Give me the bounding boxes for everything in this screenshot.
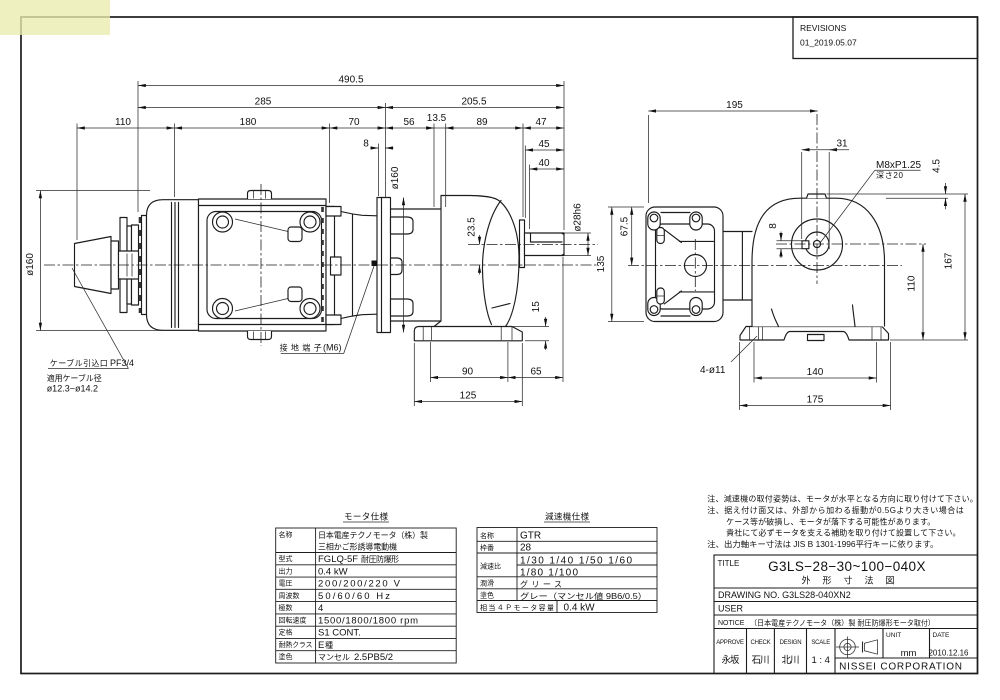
gearbox vertical axis xyxy=(694,239,696,291)
title block grid xyxy=(714,555,978,674)
right view vertical axis xyxy=(816,114,818,284)
svg-text:S1 CONT.: S1 CONT. xyxy=(318,628,361,639)
svg-text:DATE: DATE xyxy=(933,632,951,639)
svg-text:日本電産テクノモータ（株）製: 日本電産テクノモータ（株）製 xyxy=(318,530,428,540)
motor foot front xyxy=(740,327,889,341)
bell joint lines xyxy=(172,203,179,328)
dim 47 xyxy=(523,117,564,128)
flange bolt top xyxy=(391,217,414,234)
gbx left tab top xyxy=(657,228,665,244)
svg-text:潤滑: 潤滑 xyxy=(480,578,494,587)
brake ring 3 xyxy=(132,225,139,305)
svg-text:貴社にて必ずモータを支える補助を取り付けて設置して下さい。: 貴社にて必ずモータを支える補助を取り付けて設置して下さい。 xyxy=(726,528,960,538)
svg-text:塗色: 塗色 xyxy=(480,590,494,599)
M8 tap circle xyxy=(813,240,820,247)
dim 8 flange xyxy=(363,139,393,197)
projection symbol xyxy=(836,637,878,658)
neck adapter xyxy=(723,232,752,301)
gearbox gear circle xyxy=(685,255,707,277)
svg-text:グレー（マンセル値 9B6/0.5）: グレー（マンセル値 9B6/0.5） xyxy=(520,591,647,601)
dim 40 xyxy=(530,158,565,229)
frame bolt bottom-right xyxy=(300,299,320,319)
label 4-dia11 xyxy=(700,336,757,376)
dim 70 xyxy=(330,117,386,128)
label cable entry xyxy=(48,268,134,369)
motor frame xyxy=(199,199,327,331)
svg-text:耐熱クラス: 耐熱クラス xyxy=(279,640,313,649)
svg-text:490.5: 490.5 xyxy=(338,75,363,86)
notice xyxy=(718,618,935,628)
bottom cap xyxy=(248,331,272,340)
svg-text:NISSEI CORPORATION: NISSEI CORPORATION xyxy=(839,662,963,673)
gbx bolt TR xyxy=(690,212,702,230)
centerlines overlay xyxy=(44,114,926,346)
gbx bolt TL xyxy=(648,212,660,230)
gearbox top band xyxy=(661,213,690,317)
svg-text:8: 8 xyxy=(363,139,369,150)
svg-text:減速機仕様: 減速機仕様 xyxy=(545,512,589,522)
top cap xyxy=(248,191,272,200)
flange bolt mid xyxy=(391,258,403,275)
svg-text:15: 15 xyxy=(531,301,542,313)
svg-text:180: 180 xyxy=(240,117,257,128)
svg-text:M8xP1.25: M8xP1.25 xyxy=(876,160,921,171)
dome top tab xyxy=(807,194,827,198)
right view main axis xyxy=(628,264,902,266)
svg-text:1500/1800/1800 rpm: 1500/1800/1800 rpm xyxy=(318,615,418,626)
svg-text:56: 56 xyxy=(403,117,415,128)
gbx bolt BR xyxy=(690,298,702,316)
dim 167 xyxy=(890,194,968,340)
svg-text:(M6): (M6) xyxy=(323,343,342,353)
output boss xyxy=(520,220,525,268)
svg-text:電圧: 電圧 xyxy=(279,580,293,588)
svg-text:石川: 石川 xyxy=(752,655,770,666)
dim 4.5 xyxy=(827,159,969,210)
dim 15 xyxy=(508,301,549,350)
svg-text:周波数: 周波数 xyxy=(279,591,300,600)
gearbox foot xyxy=(414,327,522,341)
svg-text:注、出力軸キー寸法は JIS B 1301-1996平行キー: 注、出力軸キー寸法は JIS B 1301-1996平行キーに依ります。 xyxy=(707,539,938,549)
rear plate xyxy=(142,216,147,315)
dim 65 xyxy=(508,257,563,382)
svg-text:0.4 kW: 0.4 kW xyxy=(318,566,348,577)
dim 23.5 xyxy=(467,217,480,275)
gearbox square front xyxy=(646,207,723,322)
brake ring 2 xyxy=(127,226,132,304)
shaft bore circle xyxy=(805,232,829,256)
svg-text:175: 175 xyxy=(807,395,824,406)
svg-text:195: 195 xyxy=(726,100,743,111)
svg-text:45: 45 xyxy=(538,139,550,150)
adapter plate xyxy=(326,207,341,325)
svg-text:28: 28 xyxy=(520,543,532,554)
svg-text:70: 70 xyxy=(348,117,360,128)
dome gussets xyxy=(772,305,856,327)
svg-text:名称: 名称 xyxy=(480,531,494,540)
svg-text:ø160: ø160 xyxy=(390,166,401,189)
svg-text:67.5: 67.5 xyxy=(620,216,631,236)
frame gusset blocks xyxy=(288,227,302,302)
dim 56 xyxy=(385,117,434,207)
svg-text:01_2019.05.07: 01_2019.05.07 xyxy=(800,38,857,48)
dim 205.5 xyxy=(385,97,564,108)
svg-text:北川: 北川 xyxy=(782,655,800,666)
dim 67.5 xyxy=(620,207,632,265)
svg-text:UNIT: UNIT xyxy=(886,632,901,639)
scale cell xyxy=(811,640,830,666)
earth terminal lug xyxy=(372,261,378,267)
frame bolt top-right xyxy=(300,212,320,232)
svg-text:減速比: 減速比 xyxy=(480,562,501,571)
frame bolt bottom-left xyxy=(213,299,233,319)
svg-text:89: 89 xyxy=(476,117,488,128)
svg-text:種: 種 xyxy=(325,640,333,650)
frame window xyxy=(207,212,322,319)
dim dia28h6 xyxy=(565,203,592,256)
svg-text:135: 135 xyxy=(596,255,607,272)
brake ring 1 xyxy=(120,218,127,313)
dim 89 xyxy=(446,117,523,217)
svg-text:注、据え付け面又は、外部から加わる振動が0.5Gより大きい場: 注、据え付け面又は、外部から加わる振動が0.5Gより大きい場合は xyxy=(707,505,963,515)
keyway slot xyxy=(802,241,809,249)
svg-text:REVISIONS: REVISIONS xyxy=(800,23,847,33)
svg-text:47: 47 xyxy=(535,117,547,128)
dim 175 xyxy=(740,342,891,410)
svg-text:110: 110 xyxy=(115,117,131,128)
main axis left view xyxy=(44,264,598,266)
approve cell xyxy=(716,640,744,666)
svg-text:2.5PB5/2: 2.5PB5/2 xyxy=(354,652,393,663)
svg-text:NOTICE: NOTICE xyxy=(718,620,745,627)
input housing xyxy=(391,209,442,321)
motor table labels xyxy=(279,530,313,661)
gearbox wall diagonals xyxy=(664,230,713,304)
svg-text:型式: 型式 xyxy=(279,554,293,563)
revisions box xyxy=(793,17,978,59)
dim 140 xyxy=(754,342,877,383)
svg-text:TITLE: TITLE xyxy=(718,559,740,568)
svg-text:PF3/4: PF3/4 xyxy=(110,358,134,368)
reducer spec table grid xyxy=(477,528,657,613)
svg-text:1 : 4: 1 : 4 xyxy=(811,655,830,666)
neck taper xyxy=(341,212,377,319)
svg-text:深さ20: 深さ20 xyxy=(876,171,904,180)
motor dome xyxy=(752,198,885,326)
unit cell xyxy=(886,632,916,659)
brake mid block xyxy=(119,251,139,279)
svg-text:回転速度: 回転速度 xyxy=(279,615,307,624)
cable entry cone xyxy=(75,237,112,294)
reducer table values xyxy=(520,531,647,614)
svg-text:永坂: 永坂 xyxy=(722,654,740,666)
input flange xyxy=(377,198,391,333)
motor vertical centerline xyxy=(260,184,262,346)
svg-text:ケース等が破損し、モータが落下する可能性があります。: ケース等が破損し、モータが落下する可能性があります。 xyxy=(726,516,935,526)
svg-text:23.5: 23.5 xyxy=(467,217,478,237)
dim 195 xyxy=(648,100,817,203)
svg-text:（日本電産テクノモータ（株）製 耐圧防爆形モータ取付）: （日本電産テクノモータ（株）製 耐圧防爆形モータ取付） xyxy=(750,618,935,628)
brake disc hatch xyxy=(139,217,141,313)
dim 45 xyxy=(525,139,564,218)
check cell xyxy=(750,640,770,666)
svg-text:塗色: 塗色 xyxy=(279,652,293,661)
svg-text:モータ仕様: モータ仕様 xyxy=(344,512,388,522)
svg-text:GTR: GTR xyxy=(520,531,541,542)
reducer spec table header xyxy=(544,512,590,523)
output shaft xyxy=(525,233,565,256)
svg-text:CHECK: CHECK xyxy=(750,640,770,646)
svg-text:50/60/60 Hz: 50/60/60 Hz xyxy=(318,591,390,602)
dim 490.5 xyxy=(138,75,564,231)
dim dia160 flange xyxy=(390,166,404,332)
svg-text:65: 65 xyxy=(530,367,542,378)
label cable dia xyxy=(47,373,102,394)
dim 8 keyway xyxy=(768,223,802,258)
svg-text:125: 125 xyxy=(460,391,477,402)
frame bolt top-left xyxy=(213,212,233,232)
motor spec table header xyxy=(343,512,389,523)
dim 285 xyxy=(138,97,385,198)
date cell xyxy=(928,632,969,658)
svg-text:相当４Ｐモータ容量: 相当４Ｐモータ容量 xyxy=(480,603,554,612)
design cell xyxy=(780,640,802,666)
label earth terminal xyxy=(280,266,374,354)
svg-text:4-ø11: 4-ø11 xyxy=(700,365,726,376)
svg-text:40: 40 xyxy=(538,158,550,169)
svg-text:167: 167 xyxy=(944,252,955,269)
foot center tab xyxy=(808,335,825,341)
right view output axis xyxy=(776,243,926,245)
motor table values xyxy=(318,530,428,663)
gearbox body xyxy=(434,196,519,327)
svg-text:90: 90 xyxy=(462,367,474,378)
dim 125 xyxy=(414,343,522,406)
svg-text:ø28h6: ø28h6 xyxy=(573,203,584,232)
gbx bolt BL xyxy=(648,298,660,316)
dim 90 xyxy=(430,342,508,382)
svg-text:出力: 出力 xyxy=(279,566,293,575)
svg-text:ø160: ø160 xyxy=(25,253,36,276)
gbx left tab bottom xyxy=(657,288,665,304)
svg-text:31: 31 xyxy=(836,139,848,150)
dim dia160 motor xyxy=(25,191,196,331)
cone collar xyxy=(111,241,119,289)
svg-text:ø12.3~ø14.2: ø12.3~ø14.2 xyxy=(47,384,98,394)
svg-text:8: 8 xyxy=(768,223,779,229)
dim 31 xyxy=(802,139,849,250)
dim 180 xyxy=(174,117,329,203)
svg-text:205.5: 205.5 xyxy=(461,97,486,108)
output axis left view xyxy=(468,244,598,246)
svg-text:USER: USER xyxy=(718,604,744,614)
gearbox inner rect xyxy=(656,224,715,309)
svg-text:mm: mm xyxy=(901,648,917,659)
svg-text:2010.12.16: 2010.12.16 xyxy=(928,649,969,658)
svg-text:FGLQ-5F: FGLQ-5F xyxy=(318,554,358,565)
svg-text:0.4 kW: 0.4 kW xyxy=(564,603,596,614)
svg-text:極数: 極数 xyxy=(279,603,293,612)
svg-text:285: 285 xyxy=(255,97,272,108)
dim 110 xyxy=(77,117,174,240)
label M8 tap xyxy=(820,160,921,243)
reducer table labels xyxy=(480,531,554,612)
yellow highlight patch xyxy=(0,0,110,35)
output boss circle xyxy=(792,219,843,270)
svg-text:注、減速機の取付姿勢は、モータが水平となる方向に取り付けて下: 注、減速機の取付姿勢は、モータが水平となる方向に取り付けて下さい。 xyxy=(707,494,978,504)
motor spec table grid xyxy=(276,528,457,663)
dim 13.5 xyxy=(426,113,454,207)
svg-text:13.5: 13.5 xyxy=(427,113,447,124)
svg-text:140: 140 xyxy=(807,367,824,378)
svg-text:1/80 1/100: 1/80 1/100 xyxy=(520,568,578,579)
svg-text:適用ケーブル径: 適用ケーブル径 xyxy=(47,373,102,383)
svg-text:G3LS−28−30~100−040X: G3LS−28−30~100−040X xyxy=(768,559,926,574)
svg-text:APPROVE: APPROVE xyxy=(716,640,744,646)
svg-text:三相かご形誘導電動機: 三相かご形誘導電動機 xyxy=(318,542,397,552)
svg-text:SCALE: SCALE xyxy=(811,640,830,646)
svg-text:DESIGN: DESIGN xyxy=(780,640,802,646)
rear bell housing xyxy=(147,200,199,331)
svg-text:4: 4 xyxy=(318,603,323,614)
title text xyxy=(718,559,926,586)
svg-text:DRAWING NO. G3LS28-040XN2: DRAWING NO. G3LS28-040XN2 xyxy=(718,590,851,600)
svg-text:枠番: 枠番 xyxy=(480,543,494,552)
svg-text:ケーブル引込口: ケーブル引込口 xyxy=(50,358,108,368)
svg-text:マンセル: マンセル xyxy=(318,653,350,662)
svg-text:耐圧防爆形: 耐圧防爆形 xyxy=(361,554,399,564)
svg-text:定格: 定格 xyxy=(279,628,293,637)
frame corner diagonals xyxy=(235,219,288,311)
dim 110 xyxy=(907,244,924,340)
dim 135 xyxy=(596,207,644,322)
svg-text:E: E xyxy=(318,640,324,651)
flange bolt bottom xyxy=(391,299,414,316)
svg-text:名称: 名称 xyxy=(279,530,293,539)
svg-text:4.5: 4.5 xyxy=(932,159,943,173)
svg-text:110: 110 xyxy=(907,275,918,291)
frame joint hatch xyxy=(321,207,324,324)
